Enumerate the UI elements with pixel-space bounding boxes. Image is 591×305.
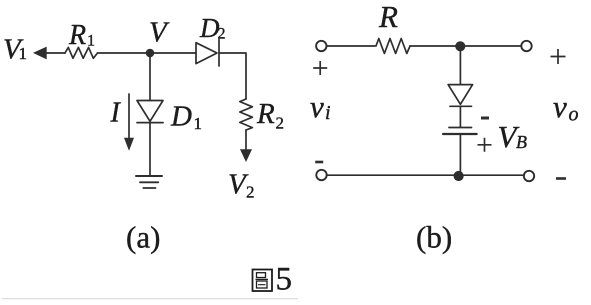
svg-text:1: 1 xyxy=(19,44,28,63)
svg-text:v: v xyxy=(553,89,567,124)
svg-text:o: o xyxy=(569,104,579,126)
svg-text:V: V xyxy=(149,17,170,49)
svg-text:2: 2 xyxy=(218,26,226,43)
svg-text:D: D xyxy=(170,101,192,133)
svg-text:2: 2 xyxy=(246,183,255,202)
svg-text:2: 2 xyxy=(276,114,285,133)
svg-text:v: v xyxy=(310,89,324,124)
svg-text:R: R xyxy=(256,98,275,130)
svg-text:i: i xyxy=(325,102,331,124)
svg-text:5: 5 xyxy=(276,262,293,298)
svg-text:R: R xyxy=(378,0,398,34)
svg-text:I: I xyxy=(110,98,122,129)
svg-text:B: B xyxy=(516,132,527,152)
svg-text:(b): (b) xyxy=(416,220,452,255)
svg-text:1: 1 xyxy=(194,114,203,133)
svg-text:R: R xyxy=(68,20,86,51)
svg-text:1: 1 xyxy=(87,33,95,50)
svg-text:(a): (a) xyxy=(126,220,160,255)
